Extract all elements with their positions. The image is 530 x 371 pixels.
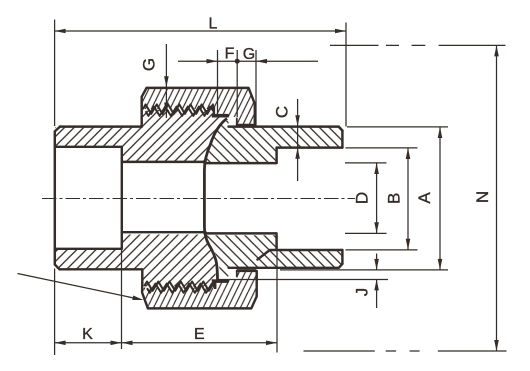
- right body: nut seat step bottom: [237, 270, 256, 277]
- E right extension line: [276, 250, 278, 353]
- bore top edge right body: [205, 162, 277, 164]
- left body: socket inner face: [121, 147, 123, 249]
- hatch: left body upper right region: [122, 110, 222, 163]
- A extension lines: [280, 127, 448, 270]
- dimension D: line and arrows: [376, 163, 378, 233]
- dimension L: left extension line: [54, 20, 56, 127]
- K/E middle extension line: [121, 250, 123, 349]
- dimension C: line and arrows: [297, 99, 299, 181]
- thread leader line: [18, 274, 141, 300]
- union nut upper outline: [142, 88, 255, 127]
- F/G middle extension line: [236, 50, 238, 117]
- lower thread end stub: [214, 281, 216, 290]
- left body: socket bore bottom edge: [55, 248, 122, 250]
- dimension N: line and arrows: [496, 45, 498, 351]
- upper seal flange bar: [212, 114, 229, 118]
- bottom section extent dash line: [304, 350, 507, 352]
- right body: socket bore bottom edge: [258, 250, 343, 260]
- bore bottom edge left body: [122, 231, 206, 233]
- G right extension line: [255, 50, 257, 126]
- svg-text:B: B: [384, 193, 403, 204]
- D extension lines: [345, 163, 387, 234]
- J extension line: [217, 279, 388, 281]
- B extension lines: [346, 148, 418, 250]
- left body: top outer edge: [60, 125, 142, 127]
- union nut lower outline: [142, 271, 257, 309]
- hatch: right body lower region: [206, 235, 343, 276]
- right body: right end face upper band: [341, 131, 343, 148]
- K/E left extension line: [54, 269, 56, 356]
- lower thread zigzag (engaged pair): [144, 282, 216, 291]
- hatch: left body lower right region: [122, 235, 216, 287]
- right body: right end face lower band: [341, 250, 343, 264]
- svg-text:N: N: [473, 191, 492, 203]
- right body: socket inner face: [275, 148, 277, 250]
- svg-text:D: D: [353, 192, 372, 204]
- left body: bottom outer edge and thread runout step: [60, 269, 143, 283]
- dimension F G: shared line: [178, 60, 318, 62]
- dimension A: line and arrows: [439, 127, 441, 270]
- bore top edge left body: [122, 161, 206, 163]
- top section extent dash line: [330, 44, 506, 46]
- seal joint S-curve: [204, 119, 227, 282]
- dimension F G: junction dot: [235, 59, 240, 64]
- svg-text:C: C: [272, 106, 291, 118]
- upper thread end stub: [213, 107, 215, 114]
- svg-text:G: G: [243, 46, 255, 63]
- svg-text:A: A: [415, 192, 434, 204]
- dimension K E: shared line: [55, 342, 277, 344]
- hatch: left body lower socket band: [55, 249, 122, 269]
- left body: socket bore top edge: [55, 146, 122, 148]
- left body: socket end outline: [55, 127, 60, 270]
- bore bottom edge right body: [205, 232, 277, 234]
- hatch: right body upper region: [206, 120, 343, 163]
- svg-text:G: G: [140, 58, 159, 71]
- centerline: [42, 198, 355, 200]
- upper thread zigzag (engaged pair): [143, 104, 214, 114]
- svg-text:F: F: [225, 46, 235, 63]
- svg-text:K: K: [82, 326, 93, 343]
- svg-text:L: L: [209, 16, 218, 33]
- hatch: union nut lower section: [142, 272, 256, 308]
- dimension L: line and arrows: [55, 30, 346, 32]
- right body: socket bore top edge: [277, 146, 343, 148]
- hatch: union nut upper section: [142, 88, 255, 125]
- lower seal flange bar: [212, 279, 229, 283]
- right body: bottom outer edge: [229, 264, 343, 268]
- svg-text:J: J: [353, 288, 372, 297]
- svg-text:E: E: [194, 326, 205, 343]
- dimension J: arrows: [376, 254, 378, 309]
- right body: nut seat step top: [237, 118, 256, 125]
- hatch: left body upper socket band: [55, 127, 122, 146]
- dimension B: line and arrows: [407, 148, 409, 250]
- F extension line: [217, 50, 219, 114]
- dimension L: right extension line: [345, 23, 347, 127]
- dimension G left: vertical line with arrows: [165, 44, 167, 118]
- right body: top outer edge: [229, 127, 343, 131]
